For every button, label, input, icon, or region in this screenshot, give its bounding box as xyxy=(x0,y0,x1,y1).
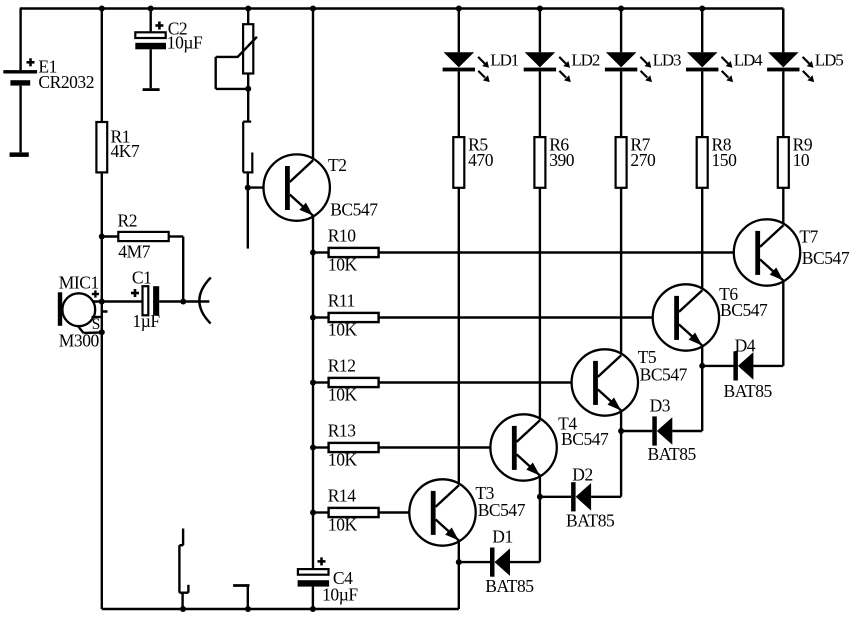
svg-text:10µF: 10µF xyxy=(167,33,203,53)
svg-text:MIC1: MIC1 xyxy=(59,272,99,292)
resistor R13 10K xyxy=(313,420,379,469)
wire T7 collector from rail via R9 xyxy=(782,9,784,53)
wire T2 emitter main vertical xyxy=(312,216,314,569)
diode D1 BAT85 xyxy=(459,526,540,596)
node D2 junction xyxy=(537,494,543,500)
svg-text:270: 270 xyxy=(630,150,656,170)
wire R14 to T3 base xyxy=(379,511,431,513)
node D1 junction xyxy=(456,559,462,565)
wire ground bottom rail xyxy=(102,608,459,610)
wire broken switch fragment left xyxy=(179,529,188,610)
node C1 output junction xyxy=(180,299,186,305)
wire T4 emitter vertical xyxy=(539,476,541,563)
transistor T7 BC547 xyxy=(734,219,850,285)
node R2 junction xyxy=(99,234,105,240)
transistor T5 BC547 xyxy=(572,347,688,416)
svg-text:470: 470 xyxy=(468,150,494,170)
svg-text:R10: R10 xyxy=(328,225,357,245)
node R13 junction xyxy=(310,445,316,451)
wire C1 output arc terminal xyxy=(199,278,210,324)
wire stub below T2 base junction xyxy=(247,188,249,249)
svg-text:BC547: BC547 xyxy=(640,364,688,384)
svg-text:D3: D3 xyxy=(650,396,671,416)
LED LD4 xyxy=(686,9,763,138)
wire R10 to T7 base xyxy=(379,251,756,253)
transistor T2 BC547 xyxy=(248,154,378,220)
diode D3 BAT85 xyxy=(621,396,702,465)
svg-text:R14: R14 xyxy=(328,485,357,505)
node D4 junction xyxy=(699,363,705,369)
svg-text:10µF: 10µF xyxy=(322,585,358,605)
node R11 junction xyxy=(310,315,316,321)
svg-text:BC547: BC547 xyxy=(330,200,378,220)
LED LD1 xyxy=(443,9,519,138)
wire T5 emitter vertical xyxy=(620,411,622,497)
svg-text:10K: 10K xyxy=(328,255,358,275)
transistor T3 BC547 xyxy=(409,479,525,545)
diode D4 BAT85 xyxy=(702,336,783,402)
svg-text:T7: T7 xyxy=(799,226,818,246)
node R10 junction xyxy=(310,250,316,256)
svg-text:BC547: BC547 xyxy=(561,429,609,449)
svg-text:D4: D4 xyxy=(735,336,756,356)
node bottom rail dots xyxy=(180,606,316,612)
svg-text:150: 150 xyxy=(712,150,738,170)
resistor R8 150 xyxy=(697,134,737,187)
wire T4 collector xyxy=(539,188,541,420)
svg-text:10K: 10K xyxy=(328,320,358,340)
node D3 junction xyxy=(618,428,624,434)
svg-text:BAT85: BAT85 xyxy=(648,444,697,464)
svg-text:BAT85: BAT85 xyxy=(485,576,534,596)
node R14 junction xyxy=(310,510,316,516)
resistor R5 470 xyxy=(453,134,493,187)
wire R13 to T4 base xyxy=(379,446,512,448)
LED LD5 xyxy=(767,9,843,138)
svg-text:10: 10 xyxy=(793,150,810,170)
svg-text:R12: R12 xyxy=(328,355,356,375)
svg-text:BC547: BC547 xyxy=(802,248,850,268)
svg-text:BC547: BC547 xyxy=(720,300,768,320)
resistor R14 10K xyxy=(313,485,379,534)
svg-text:LD2: LD2 xyxy=(571,51,599,70)
wire T5 collector xyxy=(620,188,622,355)
wire T6 collector xyxy=(701,188,703,290)
svg-text:4M7: 4M7 xyxy=(118,242,150,262)
svg-text:C1: C1 xyxy=(132,267,152,287)
svg-text:10K: 10K xyxy=(328,450,358,470)
node mic S junction xyxy=(99,329,105,335)
capacitor C1 1uF xyxy=(131,267,209,331)
diode D2 BAT85 xyxy=(540,464,621,530)
node T2 base junction xyxy=(245,185,251,191)
wire T2 collector to rail xyxy=(312,9,314,161)
capacitor C4 10uF xyxy=(298,557,359,609)
svg-text:LD5: LD5 xyxy=(815,51,843,70)
resistor R2 4M7 xyxy=(102,211,183,302)
wire R12 to T5 base xyxy=(379,381,593,383)
wire VCC top rail xyxy=(20,7,784,9)
svg-text:1µF: 1µF xyxy=(132,311,160,331)
svg-text:D1: D1 xyxy=(492,526,513,546)
wire broken switch fragment right xyxy=(233,586,249,610)
wire T3 collector xyxy=(458,188,460,485)
wire R1 bottom to mic node xyxy=(101,172,103,609)
svg-text:D2: D2 xyxy=(572,464,593,484)
transistor T4 BC547 xyxy=(490,413,609,480)
wire T6 emitter vertical xyxy=(701,346,703,432)
resistor R10 10K xyxy=(313,225,379,274)
svg-text:10K: 10K xyxy=(328,515,358,535)
node trimmer wiper junction xyxy=(245,86,251,92)
svg-text:LD3: LD3 xyxy=(653,51,681,70)
resistor R7 270 xyxy=(616,134,656,187)
svg-text:BC547: BC547 xyxy=(478,500,526,520)
svg-text:CR2032: CR2032 xyxy=(38,72,94,92)
svg-text:R13: R13 xyxy=(328,420,357,440)
resistor R9 10 xyxy=(778,134,813,187)
svg-text:390: 390 xyxy=(549,150,575,170)
wire R11 to T6 base xyxy=(379,316,675,318)
svg-text:BAT85: BAT85 xyxy=(566,511,615,531)
svg-text:LD4: LD4 xyxy=(734,51,763,70)
svg-text:10K: 10K xyxy=(328,385,358,405)
wire battery positive lead xyxy=(19,9,21,71)
svg-text:M300: M300 xyxy=(59,330,100,350)
node mic output junction xyxy=(99,299,105,305)
microphone MIC1 M300 xyxy=(58,272,143,350)
svg-text:T2: T2 xyxy=(328,155,347,175)
LED LD3 xyxy=(605,9,681,138)
transistor T6 BC547 xyxy=(653,284,768,351)
node top-rail junction dots xyxy=(99,6,705,12)
capacitor C2 10uF xyxy=(135,9,203,92)
resistor R11 10K xyxy=(313,290,379,339)
trimmer potentiometer xyxy=(216,9,257,89)
resistor R6 390 xyxy=(534,134,574,187)
resistor R1 4K7 xyxy=(96,122,140,172)
svg-text:BAT85: BAT85 xyxy=(724,381,773,401)
wire left branch from rail to R1 xyxy=(101,9,103,123)
svg-text:R2: R2 xyxy=(118,211,138,231)
wire T3 emitter to ground rail xyxy=(458,541,460,609)
node R12 junction xyxy=(310,380,316,386)
resistor below trimmer (unlabeled) xyxy=(243,89,253,188)
resistor R12 10K xyxy=(313,355,379,404)
wire T7 emitter vertical xyxy=(782,281,784,366)
wire T7 collector xyxy=(782,188,784,225)
battery E1 CR2032 xyxy=(3,57,94,157)
svg-text:R11: R11 xyxy=(328,290,355,310)
svg-text:4K7: 4K7 xyxy=(111,141,140,161)
LED LD2 xyxy=(524,9,600,138)
svg-text:LD1: LD1 xyxy=(490,51,518,70)
